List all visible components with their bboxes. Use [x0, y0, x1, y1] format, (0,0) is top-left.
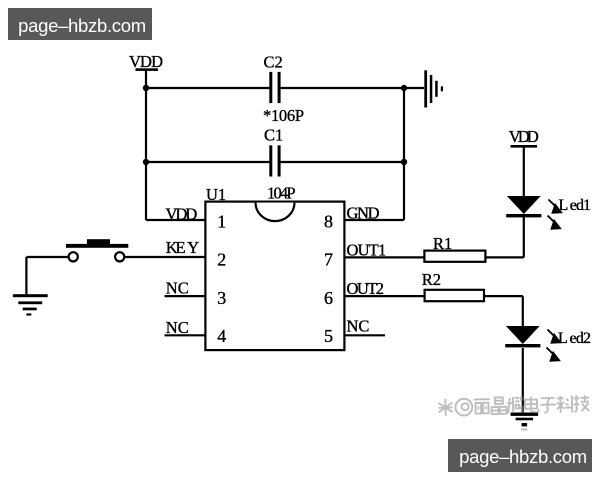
svg-text:OUT1: OUT1: [347, 241, 387, 260]
svg-text:VDD: VDD: [129, 52, 163, 71]
svg-text:L ed2: L ed2: [558, 330, 591, 347]
svg-text:4: 4: [217, 326, 226, 346]
svg-text:1: 1: [217, 212, 226, 232]
svg-text:104P: 104P: [267, 184, 296, 203]
svg-text:8: 8: [324, 212, 333, 232]
svg-text:L ed1: L ed1: [559, 197, 592, 214]
svg-text:NC: NC: [166, 318, 189, 337]
svg-text:3: 3: [217, 288, 226, 308]
svg-text:Y: Y: [187, 238, 199, 257]
svg-text:NC: NC: [166, 279, 189, 298]
svg-text:R2: R2: [422, 270, 441, 289]
svg-text:GND: GND: [347, 203, 380, 222]
svg-text:2: 2: [217, 250, 226, 270]
svg-text:C2: C2: [264, 53, 283, 72]
svg-text:*106P: *106P: [263, 106, 304, 125]
svg-text:KE: KE: [166, 238, 186, 257]
svg-text:OUT2: OUT2: [347, 279, 385, 298]
svg-text:VDD: VDD: [166, 204, 198, 223]
svg-text:6: 6: [324, 288, 333, 308]
svg-text:U1: U1: [206, 185, 226, 204]
svg-text:R1: R1: [433, 234, 452, 253]
svg-text:VDD: VDD: [509, 127, 539, 146]
svg-text:NC: NC: [347, 317, 370, 336]
svg-text:5: 5: [324, 326, 333, 346]
svg-text:C1: C1: [264, 126, 283, 145]
svg-text:7: 7: [324, 250, 333, 270]
